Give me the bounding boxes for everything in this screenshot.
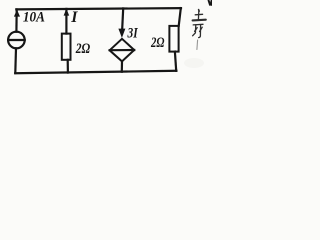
wire bottom rail — [15, 71, 176, 73]
margin mark char1 — [193, 10, 206, 21]
margin mark char2 — [193, 24, 203, 37]
arrow of source IS1 (up) — [14, 10, 20, 17]
svg-text:2Ω: 2Ω — [150, 35, 164, 51]
dependent source IS2 bar — [110, 49, 135, 51]
wire branch2 lower — [67, 60, 69, 73]
resistor R2 2ohm body — [169, 26, 178, 52]
current source IS1 10A circle — [8, 32, 25, 49]
svg-text:I: I — [70, 9, 78, 26]
arrow of current I (up) — [64, 9, 70, 16]
current source IS1 bar — [8, 39, 25, 41]
wire left branch lower — [14, 48, 17, 73]
wire branch3 lower — [121, 61, 123, 71]
wire branch2 upper — [65, 9, 67, 34]
margin mark squiggle — [196, 40, 199, 50]
svg-text:3I: 3I — [127, 25, 138, 41]
paper smudge — [184, 58, 204, 68]
wire branch3 upper — [122, 8, 123, 29]
wire right branch upper — [179, 8, 181, 26]
dependent source IS2 3I diamond — [110, 39, 135, 62]
resistor R1 2ohm body — [62, 34, 71, 60]
svg-text:10A: 10A — [23, 10, 45, 26]
wire top rail — [16, 8, 181, 9]
corner blob — [209, 1, 212, 6]
wire left branch upper — [15, 9, 18, 31]
svg-text:2Ω: 2Ω — [75, 41, 90, 57]
wire right branch lower — [175, 52, 176, 71]
arrow of source IS2 (down) — [118, 29, 125, 38]
